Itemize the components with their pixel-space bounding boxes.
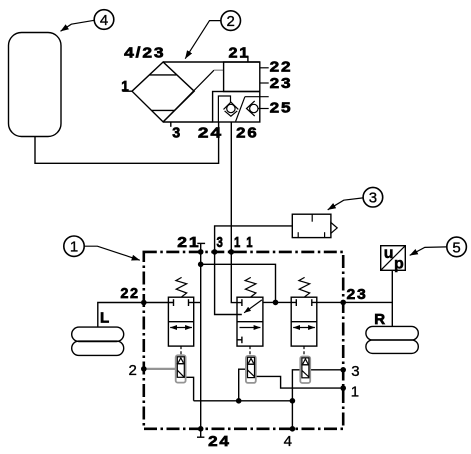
wire valve V2 right to valve V3 left (263, 301, 296, 303)
internal wire port 21/24 vertical (200, 252, 202, 429)
svg-text:24: 24 (208, 433, 231, 449)
svg-text:L: L (100, 309, 111, 326)
muffler (component 3) (292, 214, 337, 237)
svg-text:1: 1 (121, 78, 130, 95)
dryer lower check-valve box (213, 92, 260, 123)
solenoid coil Y1 (176, 355, 186, 382)
dryer diagonal jog (gray) (214, 69, 224, 71)
block port 21 tick (197, 243, 205, 252)
wire valve V1 right port to gallery (189, 302, 201, 304)
balloon label 3 (328, 187, 383, 209)
wire valve V3 right to port 23 (312, 301, 343, 303)
dryer internal diagonal (163, 70, 214, 122)
svg-text:R: R (374, 311, 386, 328)
svg-text:1: 1 (351, 384, 359, 401)
valve block boundary (component 1) (144, 252, 343, 429)
air bellows R (366, 326, 418, 353)
svg-text:21: 21 (177, 234, 200, 251)
svg-text:23: 23 (270, 75, 293, 92)
gray wire port 2 to solenoid Y1 (144, 368, 176, 370)
wire port 22 to valve V1 (144, 302, 174, 304)
V1 pilot dashed line (180, 346, 182, 355)
CV1 seat top chevron (224, 102, 239, 109)
dryer port 23 tick (260, 82, 269, 84)
balloon label 4 (61, 10, 114, 32)
solenoid coil Y2 (246, 356, 256, 383)
svg-text:22: 22 (120, 285, 139, 302)
pressure sensor u/p (component 5) (381, 245, 406, 273)
dryer port 3 tick (170, 122, 172, 127)
svg-text:1: 1 (234, 234, 242, 251)
internal wire port 3 to valve V2 exhaust (215, 252, 242, 315)
dryer lower diagonal (236, 97, 245, 122)
CV1 seat bottom chevron (225, 111, 238, 116)
solenoid coil Y3 (300, 357, 310, 384)
svg-text:4/23: 4/23 (124, 45, 165, 62)
svg-text:p: p (394, 256, 404, 273)
dryer port 1 tick (123, 90, 133, 92)
dryer desiccant hatch bottom (152, 109, 175, 111)
junction dots (141, 249, 346, 432)
balloon label 2 (185, 11, 240, 59)
dryer port 25 tick (258, 108, 269, 110)
svg-text:3: 3 (172, 124, 182, 141)
air dryer (component 2) body diamond (132, 62, 194, 122)
block port 24 tick (197, 429, 204, 437)
svg-text:25: 25 (270, 100, 293, 117)
dryer port 22 tick (260, 67, 269, 69)
wire solenoid Y2 right to port 1 (256, 376, 344, 388)
air bellows L (72, 327, 124, 355)
wire solenoid Y3 right to port 3 (309, 369, 343, 371)
svg-text:2: 2 (129, 362, 137, 379)
V3 pilot dashed line (303, 346, 305, 356)
wire port 23 to sensor drop (343, 301, 392, 303)
svg-text:1: 1 (246, 234, 254, 251)
dryer port 21 tick (247, 56, 249, 62)
dryer lower diagonal jog (245, 96, 269, 98)
check valve CV1 circle (227, 104, 235, 112)
wire tank to dryer port 24 (35, 122, 219, 164)
balloon label 1 (64, 236, 140, 260)
balloon label 5 (410, 237, 467, 257)
svg-text:1: 1 (70, 239, 78, 256)
inner channel to check valve CV1 (218, 96, 230, 122)
wire dryer port 26 to block port 11 (230, 122, 232, 252)
svg-text:4: 4 (100, 12, 108, 29)
dryer desiccant hatch top (150, 74, 177, 76)
dryer top line to port 21 (163, 61, 260, 63)
solenoid valve V2 (237, 277, 263, 346)
svg-text:u: u (384, 245, 394, 262)
svg-text:3: 3 (217, 234, 225, 251)
CV2 seat chevron (247, 101, 255, 116)
svg-text:5: 5 (452, 239, 460, 256)
bottom bus wire (194, 400, 293, 402)
svg-text:24: 24 (198, 124, 223, 141)
internal wire port 11 to valve V2 inlet (231, 252, 242, 303)
internal wire to supply gallery (201, 264, 276, 302)
svg-text:22: 22 (270, 58, 293, 75)
dryer upper valve box (224, 62, 260, 92)
wire sensor to bellows R (391, 270, 393, 326)
solenoid valve V1 (168, 277, 193, 346)
solenoid valve V3 (291, 277, 317, 346)
wire muffler to block port 3 (215, 226, 293, 252)
wire bellows L to port 22 (98, 303, 144, 328)
wire solenoid Y3 left to port 4 (292, 370, 300, 429)
check valve CV2 circle (250, 104, 258, 112)
svg-text:3: 3 (351, 363, 359, 380)
svg-text:21: 21 (229, 45, 251, 62)
svg-text:4: 4 (284, 433, 292, 449)
svg-text:2: 2 (227, 13, 235, 30)
svg-text:26: 26 (236, 124, 258, 141)
dryer bottom line (163, 121, 213, 123)
svg-text:3: 3 (369, 190, 377, 207)
reservoir tank (component 4) (9, 33, 62, 137)
wire solenoid Y2 left to bottom bus (239, 369, 246, 401)
V2 pilot dashed line (249, 346, 251, 356)
wire solenoid Y1 to bottom bus (185, 377, 194, 401)
svg-text:23: 23 (347, 286, 368, 303)
